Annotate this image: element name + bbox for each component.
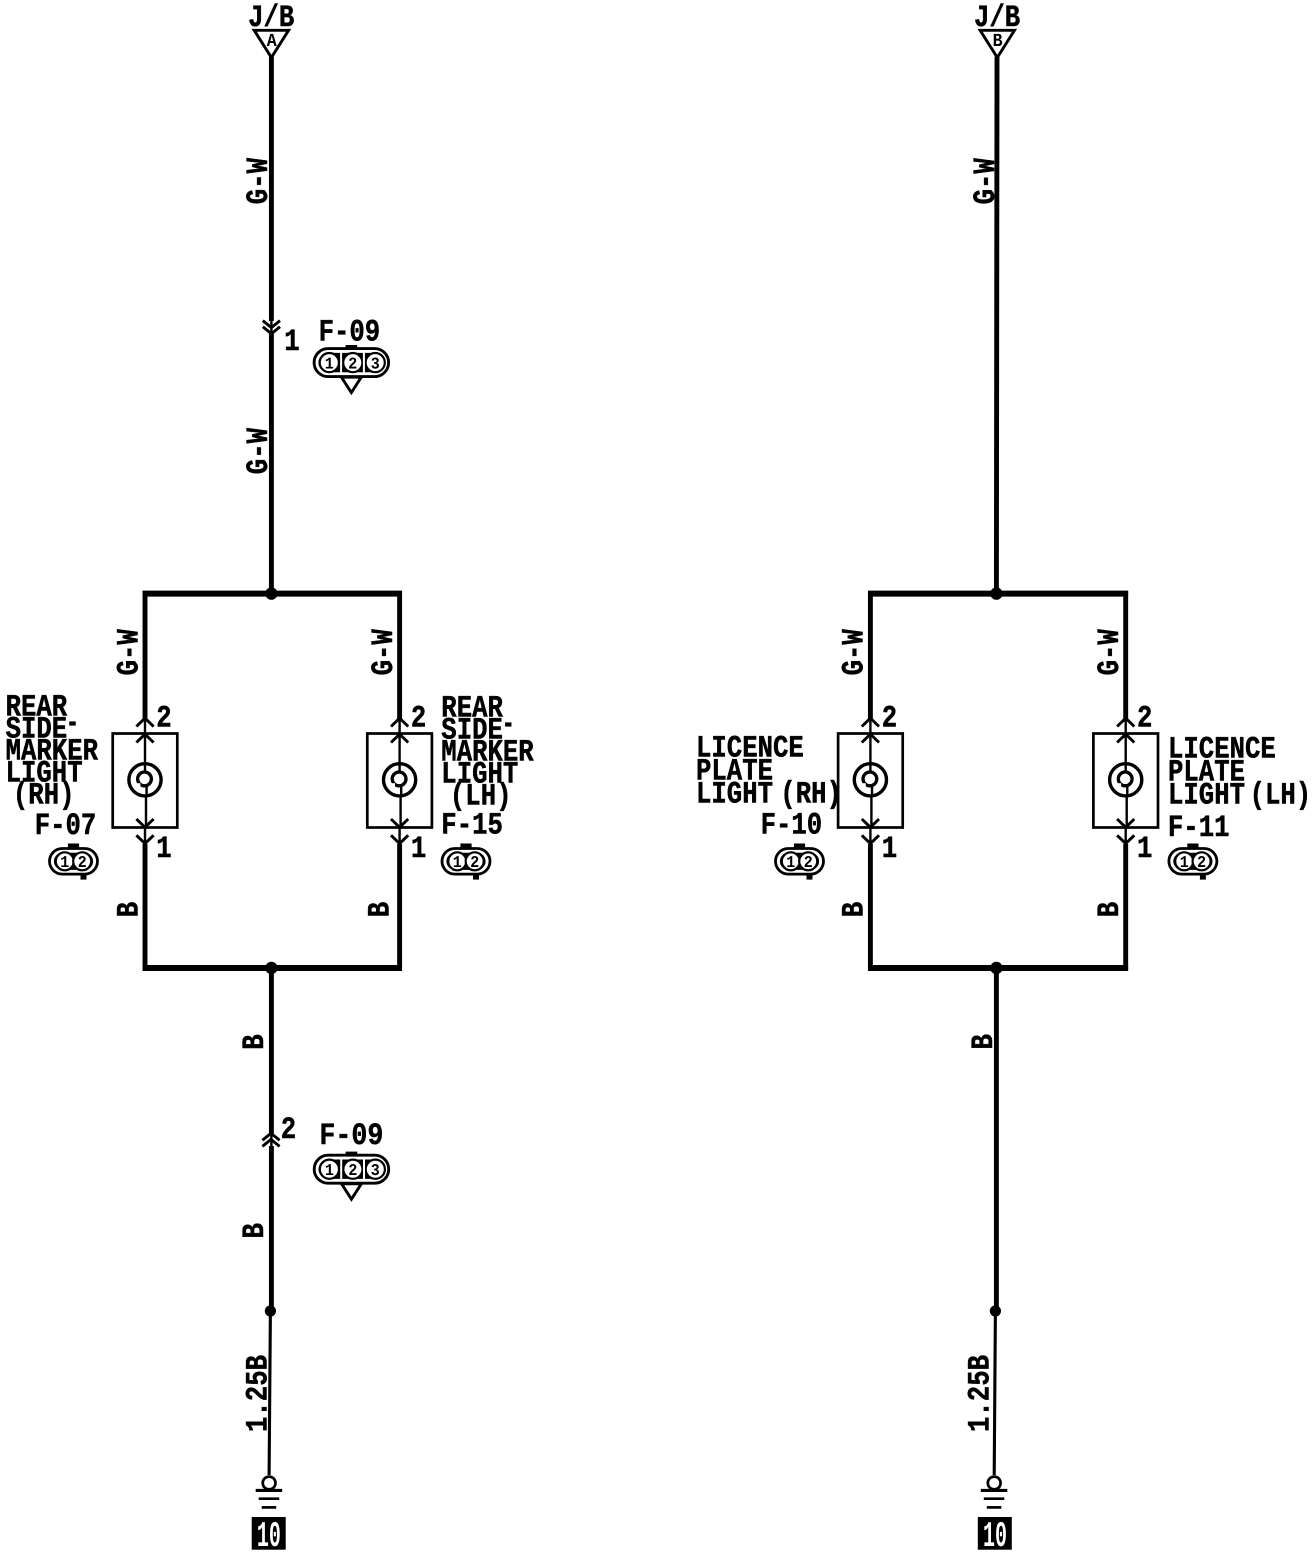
page reference box 10 (right circuit) bbox=[978, 1517, 1012, 1550]
svg-text:F-09: F-09 bbox=[319, 1119, 383, 1154]
svg-text:G-W: G-W bbox=[1093, 629, 1128, 676]
svg-text:3: 3 bbox=[371, 1161, 380, 1180]
label REAR SIDE-MARKER LIGHT (LH) bbox=[441, 691, 534, 814]
wire: left branch (G-W) down to lamp F-07 bbox=[143, 591, 148, 719]
svg-text:B: B bbox=[967, 1034, 1002, 1049]
wire thin section at connector F-09 bbox=[270, 319, 272, 336]
wire: bottom bus joining licence lamp returns bbox=[868, 965, 1128, 971]
svg-text:2: 2 bbox=[804, 853, 813, 872]
lamp F-11 pin 2 chevrons bbox=[1117, 718, 1134, 726]
svg-text:G-W: G-W bbox=[242, 428, 277, 475]
svg-text:2: 2 bbox=[1197, 853, 1206, 872]
svg-text:G-W: G-W bbox=[838, 629, 873, 676]
wire: left branch (B) below lamp F-07 bbox=[144, 828, 146, 847]
wire thin section at connector F-09 lower bbox=[270, 1132, 272, 1148]
lamp F-10 bulb rectangle bbox=[838, 734, 903, 828]
wire: top bus splitting to licence plate lights bbox=[868, 591, 1128, 597]
svg-text:G-W: G-W bbox=[113, 629, 148, 676]
svg-text:G-W: G-W bbox=[242, 158, 277, 205]
page reference box 10 (left circuit) bbox=[252, 1517, 286, 1550]
connector icon F-10 (2-pin) bbox=[794, 844, 805, 850]
svg-text:B: B bbox=[238, 1034, 273, 1049]
wire G-W from J/B A down to junction (upper segment) bbox=[269, 57, 274, 322]
svg-text:2: 2 bbox=[78, 853, 87, 872]
wire: left branch (G-W) down to lamp F-10 bbox=[868, 591, 873, 719]
connector F-09 upper triangle pointer bbox=[341, 377, 361, 392]
svg-text:B: B bbox=[993, 31, 1003, 52]
svg-text:B: B bbox=[238, 1223, 273, 1238]
wire G-W from J/B B down to junction bbox=[994, 57, 999, 594]
svg-text:B: B bbox=[112, 902, 147, 917]
label LICENCE PLATE LIGHT (RH) bbox=[696, 732, 842, 813]
lamp F-15 bulb rectangle bbox=[367, 734, 432, 828]
svg-text:B: B bbox=[1093, 902, 1128, 917]
svg-text:2: 2 bbox=[882, 701, 897, 736]
svg-text:LIGHT: LIGHT bbox=[1168, 778, 1245, 813]
label LICENCE PLATE LIGHT (LH) bbox=[1168, 732, 1311, 813]
svg-text:2: 2 bbox=[348, 1161, 357, 1180]
lamp F-15 internal lead top bbox=[398, 732, 400, 773]
lamp F-11 filament bbox=[1118, 772, 1132, 786]
lamp F-07 pin 1 chevrons bbox=[136, 819, 153, 827]
svg-text:F-15: F-15 bbox=[441, 808, 503, 843]
wire: top bus splitting to RH/LH lamps bbox=[143, 591, 402, 597]
node: top junction of right circuit bbox=[990, 587, 1002, 599]
svg-text:1: 1 bbox=[786, 853, 795, 872]
label REAR SIDE-MARKER LIGHT (RH) bbox=[6, 691, 99, 814]
wire B from bottom bus down (left circuit) bbox=[269, 968, 274, 1134]
node: bottom junction of right circuit bbox=[990, 962, 1002, 974]
lamp F-11 bulb rectangle bbox=[1093, 734, 1158, 828]
wire: left branch (B) below lamp F-10 bbox=[869, 828, 871, 847]
svg-text:2: 2 bbox=[348, 354, 357, 373]
connector icon F-11 (2-pin) bbox=[1187, 844, 1198, 850]
svg-text:1.25B: 1.25B bbox=[242, 1355, 277, 1432]
svg-text:1: 1 bbox=[325, 354, 334, 373]
svg-text:1: 1 bbox=[284, 325, 299, 360]
lamp F-10 internal lead top bbox=[869, 732, 871, 773]
svg-text:1: 1 bbox=[1180, 853, 1189, 872]
wire: right branch (G-W) down to lamp F-15 bbox=[397, 591, 402, 719]
node: top junction of left circuit bbox=[265, 587, 277, 599]
svg-text:G-W: G-W bbox=[367, 629, 402, 676]
svg-text:LIGHT: LIGHT bbox=[696, 778, 773, 813]
lamp F-15 pin 1 chevrons bbox=[391, 819, 408, 827]
ground symbol left circuit bbox=[263, 1477, 276, 1490]
wire B continuing to splice (left circuit) bbox=[269, 1146, 274, 1311]
node: splice to ground lead (left) bbox=[265, 1305, 276, 1316]
lamp F-15 filament bbox=[392, 772, 406, 786]
svg-text:2: 2 bbox=[281, 1113, 296, 1148]
svg-text:1.25B: 1.25B bbox=[964, 1355, 999, 1432]
lamp F-11 pin 1 chevrons bbox=[1117, 819, 1134, 827]
connector F-09 pin 2 chevrons on wire bbox=[262, 1133, 279, 1140]
wire: right branch (B) below lamp F-11 bbox=[1124, 828, 1126, 847]
svg-text:F-07: F-07 bbox=[35, 809, 97, 844]
svg-text:B: B bbox=[364, 902, 399, 917]
svg-text:F-10: F-10 bbox=[761, 809, 823, 844]
wire 1.25B to ground (right) bbox=[994, 1311, 995, 1475]
svg-text:A: A bbox=[267, 31, 278, 52]
wire B from bottom bus down (right circuit) bbox=[994, 968, 999, 1311]
node: splice to ground lead (right) bbox=[990, 1305, 1001, 1316]
lamp F-10 pin 1 chevrons bbox=[862, 819, 879, 827]
lamp F-07 filament bbox=[138, 772, 152, 786]
svg-text:B: B bbox=[838, 902, 873, 917]
wire G-W from connector F-09 down to junction bbox=[269, 334, 274, 594]
lamp F-11 bulb circle bbox=[1110, 764, 1142, 796]
wire: right branch (B) below lamp F-15 bbox=[398, 828, 400, 847]
svg-text:3: 3 bbox=[371, 354, 380, 373]
lamp F-10 bulb circle bbox=[854, 764, 886, 796]
ground symbol right circuit bbox=[988, 1477, 1001, 1490]
svg-text:10: 10 bbox=[257, 1516, 281, 1556]
lamp F-15 internal lead bottom bbox=[400, 785, 402, 798]
svg-text:2: 2 bbox=[470, 853, 479, 872]
svg-text:10: 10 bbox=[983, 1516, 1007, 1556]
svg-text:F-11: F-11 bbox=[1168, 811, 1230, 846]
wire 1.25B to ground (left) bbox=[269, 1311, 270, 1475]
svg-text:2: 2 bbox=[1137, 701, 1152, 736]
svg-text:1: 1 bbox=[1137, 832, 1152, 867]
node: bottom junction of left circuit bbox=[265, 962, 277, 974]
lamp F-11 internal lead bottom bbox=[1126, 785, 1128, 798]
lamp F-07 bulb circle bbox=[129, 764, 161, 796]
svg-text:1: 1 bbox=[325, 1161, 334, 1180]
lamp F-07 pin 2 chevrons bbox=[136, 718, 153, 726]
svg-text:(LH): (LH) bbox=[1250, 778, 1312, 813]
svg-text:1: 1 bbox=[882, 832, 897, 867]
lamp F-07 internal lead top bbox=[144, 732, 146, 773]
lamp F-10 filament bbox=[863, 772, 877, 786]
lamp F-07 internal lead bottom bbox=[145, 785, 147, 798]
svg-text:1: 1 bbox=[60, 853, 69, 872]
lamp F-15 pin 2 chevrons bbox=[391, 718, 408, 726]
svg-text:G-W: G-W bbox=[969, 158, 1004, 205]
lamp F-10 pin 2 chevrons bbox=[862, 718, 879, 726]
connector F-09 pin 1 chevrons on wire bbox=[263, 321, 280, 328]
svg-text:1: 1 bbox=[156, 832, 171, 867]
connector icon F-09 lower (3-pin) bbox=[346, 1152, 358, 1157]
connector icon F-09 upper (3-pin) bbox=[346, 345, 358, 350]
svg-text:(RH): (RH) bbox=[780, 778, 842, 813]
lamp F-11 internal lead top bbox=[1124, 732, 1126, 773]
svg-text:2: 2 bbox=[156, 701, 171, 736]
wire: right branch (G-W) down to lamp F-11 bbox=[1123, 591, 1128, 719]
connector icon F-07 (2-pin) bbox=[68, 844, 79, 850]
connector icon F-15 (2-pin) bbox=[460, 844, 471, 850]
lamp F-07 bulb rectangle bbox=[113, 734, 178, 828]
svg-text:2: 2 bbox=[411, 701, 426, 736]
lamp F-10 internal lead bottom bbox=[871, 785, 873, 798]
wire: bottom bus joining RH/LH lamp returns bbox=[143, 965, 402, 971]
connector F-09 lower triangle pointer bbox=[342, 1184, 362, 1199]
svg-text:1: 1 bbox=[453, 853, 462, 872]
svg-text:1: 1 bbox=[411, 832, 426, 867]
lamp F-15 bulb circle bbox=[384, 764, 416, 796]
